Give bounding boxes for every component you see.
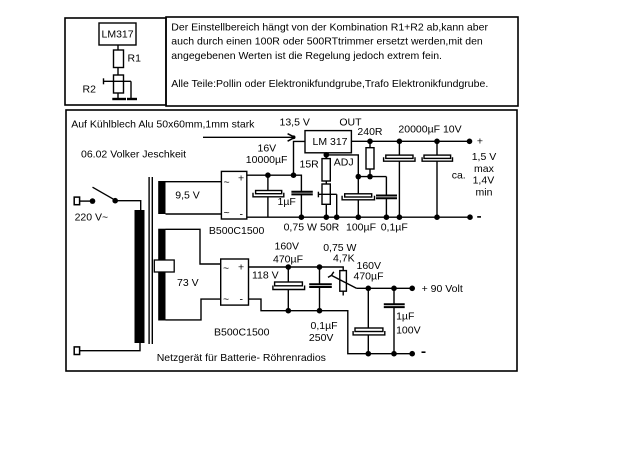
terminal - output lower (409, 351, 425, 357)
label OUT (339, 117, 362, 129)
secondary 73V winding tap notch (154, 260, 174, 272)
node dot 0,1uF 250V top (317, 264, 323, 270)
svg-text:LM 317: LM 317 (313, 136, 348, 148)
wire R2 wiper to ground (130, 81, 132, 99)
wire 73V winding bottom to rectifier2 (166, 299, 221, 320)
label 10000uF (246, 154, 288, 166)
potentiometer 4,7K (328, 271, 356, 296)
capacitor 1uF (input) (291, 191, 312, 217)
svg-text:0,75 W: 0,75 W (284, 222, 317, 234)
svg-text:+: + (238, 173, 244, 185)
svg-text:470µF: 470µF (354, 270, 384, 282)
transformer secondary 73V winding (158, 229, 165, 321)
annotation arrow to LM317 (203, 134, 296, 142)
wire LM317 to R1 (117, 45, 119, 50)
svg-text:9,5 V: 9,5 V (175, 190, 200, 202)
svg-text:Alle Teile:Pollin oder Elektro: Alle Teile:Pollin oder Elektronikfundgru… (171, 78, 488, 90)
label B500C1500 upper (209, 225, 265, 237)
svg-text:+: + (477, 136, 483, 148)
capacitor 0,1uF 250V (309, 267, 332, 311)
svg-text:06.02 Volker Jeschkeit: 06.02 Volker Jeschkeit (81, 149, 186, 161)
label 240R (357, 126, 383, 138)
svg-text:angegebenen Werten ist die Reg: angegebenen Werten ist die Regelung jedo… (171, 50, 442, 62)
node dot 20000uF no2 bottom (434, 214, 440, 220)
regulator LM317 (305, 131, 351, 153)
transformer secondary 9,5V winding (158, 181, 165, 214)
main schematic frame (66, 110, 517, 371)
svg-text:R1: R1 (128, 53, 142, 65)
wire 50R bottom to ground rail (325, 204, 327, 217)
terminal 220V input bottom (74, 347, 79, 355)
terminal 220V input top (74, 197, 79, 205)
wire 9,5V winding bottom to rectifier (166, 213, 222, 215)
labels 0,75 W and 50R (284, 222, 317, 234)
potentiometer R2 (83, 75, 132, 96)
svg-text:max: max (474, 163, 495, 175)
svg-text:1,5 V: 1,5 V (472, 151, 497, 163)
wire 4,7K wiper to output (356, 287, 412, 289)
svg-text:R2: R2 (83, 84, 97, 96)
svg-text:~: ~ (224, 207, 230, 219)
node dot 0,1uF bottom (384, 214, 390, 220)
svg-text:220 V~: 220 V~ (75, 211, 109, 223)
svg-text:15R: 15R (300, 159, 320, 171)
svg-text:240R: 240R (357, 126, 383, 138)
svg-text:1µF: 1µF (278, 196, 296, 208)
svg-text:Auf Kühlblech Alu 50x60mm,1mm: Auf Kühlblech Alu 50x60mm,1mm stark (71, 118, 255, 130)
bridge rectifier B500C1500 upper (221, 171, 246, 220)
svg-text:LM317: LM317 (102, 29, 134, 41)
svg-text:4,7K: 4,7K (333, 252, 355, 264)
label 20000uF 10V (398, 123, 461, 135)
svg-text:~: ~ (223, 293, 229, 305)
label 9,5 V (175, 190, 200, 202)
wire primary bottom to lower terminal (79, 343, 140, 351)
terminal - output upper (467, 214, 481, 220)
annotation 06.02 Volker Jeschkeit (81, 149, 186, 161)
wire rectifier1 + output rail (247, 175, 302, 191)
label 16V (258, 142, 277, 154)
capacitor 1uF 100V (384, 288, 405, 353)
potentiometer 50R (318, 184, 336, 204)
svg-text:100µF: 100µF (346, 222, 376, 234)
svg-text:10000µF: 10000µF (246, 154, 288, 166)
label 0,1uF 250V (309, 320, 338, 344)
node dot LM317 input (291, 172, 297, 178)
wire 73V winding top to rectifier2 (166, 229, 221, 264)
label B500C1500 lower (214, 326, 270, 338)
node dot 10000uF top (265, 172, 271, 178)
switch S1 (90, 187, 118, 204)
label Netzgeraet (157, 352, 326, 364)
node dot 240R bottom (367, 174, 373, 180)
node dot 1uF 100V top (391, 286, 397, 292)
label 1uF 100V (396, 310, 421, 336)
node dot 1uF bottom (299, 214, 305, 220)
label 160V 470uF no2 (354, 260, 384, 282)
node dot 20000uF no1 bottom (397, 214, 403, 220)
wire ADJ to resistor 15R (325, 153, 327, 159)
svg-text:100V: 100V (396, 325, 421, 337)
svg-text:-: - (240, 294, 244, 306)
wire 15R to 50R (325, 181, 327, 184)
svg-text:1,4V: 1,4V (473, 174, 495, 186)
resistor 240R (366, 141, 374, 176)
wire R2 bottom to ground (117, 93, 119, 99)
wire terminal to switch (79, 200, 93, 202)
svg-text:13,5 V: 13,5 V (280, 116, 310, 128)
label 15R (300, 159, 320, 171)
node dot 1uF 100V bottom (391, 351, 397, 357)
node dot 50R bottom (324, 214, 330, 220)
capacitor 10000uF (253, 175, 284, 217)
label 4,7K (333, 252, 355, 264)
svg-text:250V: 250V (309, 332, 334, 344)
bridge rectifier B500C1500 lower (221, 259, 249, 306)
svg-text:B500C1500: B500C1500 (209, 225, 265, 237)
wire 50R wiper to ground rail (336, 194, 338, 217)
node dot 240R top (367, 139, 373, 145)
capacitor 100uF (342, 177, 374, 218)
inset box frame (65, 18, 166, 105)
wire ADJ jog right and down (326, 155, 358, 177)
capacitor 470uF no1 (273, 267, 305, 311)
wire LM317 output (351, 140, 469, 142)
annotation Auf Kuehlblech (71, 118, 255, 130)
svg-text:-: - (240, 209, 244, 221)
note text box frame (166, 17, 518, 106)
node dot 0,1uF 250V bottom (317, 308, 323, 314)
ground (under R2) (112, 98, 126, 100)
svg-text:B500C1500: B500C1500 (214, 326, 270, 338)
svg-text:0,1µF: 0,1µF (381, 222, 408, 234)
label 1uF (278, 196, 296, 208)
terminal + 90 Volt (409, 283, 462, 295)
svg-text:+: + (238, 262, 244, 274)
ground (under wiper wire) (127, 98, 137, 100)
node dot 470uF no1 bottom (286, 308, 292, 314)
node dot 50R wiper ground (334, 214, 340, 220)
label 160V 470uF no1 (273, 241, 303, 266)
svg-text:73 V: 73 V (177, 277, 199, 289)
rail rectifier2 + output (249, 267, 344, 271)
wire LM317 input (294, 141, 306, 175)
op-amp/regulator symbol box LM317 (inset) (99, 23, 136, 45)
node dot 470uF no1 top (286, 264, 292, 270)
svg-text:ca.: ca. (452, 169, 466, 181)
ADJ pin node dot (324, 152, 330, 158)
wire R1 to R2 (117, 68, 119, 76)
label 118 V (252, 270, 279, 282)
svg-text:Netzgerät für Batterie- Röhren: Netzgerät für Batterie- Röhrenradios (157, 352, 326, 364)
svg-text:+ 90 Volt: + 90 Volt (422, 283, 463, 295)
transformer T1 primary winding (135, 210, 145, 343)
svg-text:~: ~ (224, 177, 230, 189)
svg-text:118 V: 118 V (252, 270, 279, 282)
label 13,5 V (280, 116, 310, 128)
capacitor 20000uF no1 (384, 141, 415, 217)
svg-text:auch durch einen 100R oder 500: auch durch einen 100R oder 500RTtrimmer … (171, 36, 483, 48)
capacitor 0,1uF (ADJ) (376, 177, 397, 218)
resistor R1 (114, 50, 142, 68)
capacitor 20000uF no2 (422, 141, 452, 217)
svg-text:50R: 50R (320, 222, 340, 234)
label 73 V (177, 277, 199, 289)
resistor 15R (322, 159, 330, 181)
note text (171, 21, 488, 89)
terminal + output upper (467, 136, 483, 148)
wire switch to transformer primary (115, 201, 141, 210)
svg-text:470µF: 470µF (273, 253, 303, 265)
node dot 20000uF no2 top (434, 139, 440, 145)
svg-text:ADJ: ADJ (334, 156, 354, 168)
svg-text:Der Einstellbereich hängt von: Der Einstellbereich hängt von der Kombin… (171, 21, 488, 33)
capacitor 470uF no2 (353, 288, 385, 353)
wire ADJ net horizontal (358, 176, 386, 178)
svg-text:20000µF 10V: 20000µF 10V (398, 123, 461, 135)
node dot 20000uF no1 top (397, 139, 403, 145)
label 0,75 W (4,7K) (323, 242, 356, 254)
label 220 V~ (75, 211, 109, 223)
svg-text:160V: 160V (275, 241, 300, 253)
transformer core (149, 177, 152, 344)
node dot 470uF no2 top (366, 286, 372, 292)
label ADJ (334, 156, 354, 168)
node dot 100uF bottom (356, 214, 362, 220)
ground rail upper section (247, 216, 470, 218)
svg-text:~: ~ (223, 263, 229, 275)
label 0,1uF (381, 222, 408, 234)
wire 9,5V winding top to rectifier (166, 181, 222, 183)
label 100uF (346, 222, 376, 234)
labels output voltages upper (472, 151, 497, 163)
node dot ADJ net left (356, 174, 362, 180)
node dot 470uF no2 bottom (366, 351, 372, 357)
svg-text:0,1µF: 0,1µF (311, 320, 338, 332)
svg-text:1µF: 1µF (396, 310, 414, 322)
svg-text:min: min (476, 186, 493, 198)
rail rectifier2 - output (249, 299, 413, 354)
svg-text:16V: 16V (258, 142, 277, 154)
